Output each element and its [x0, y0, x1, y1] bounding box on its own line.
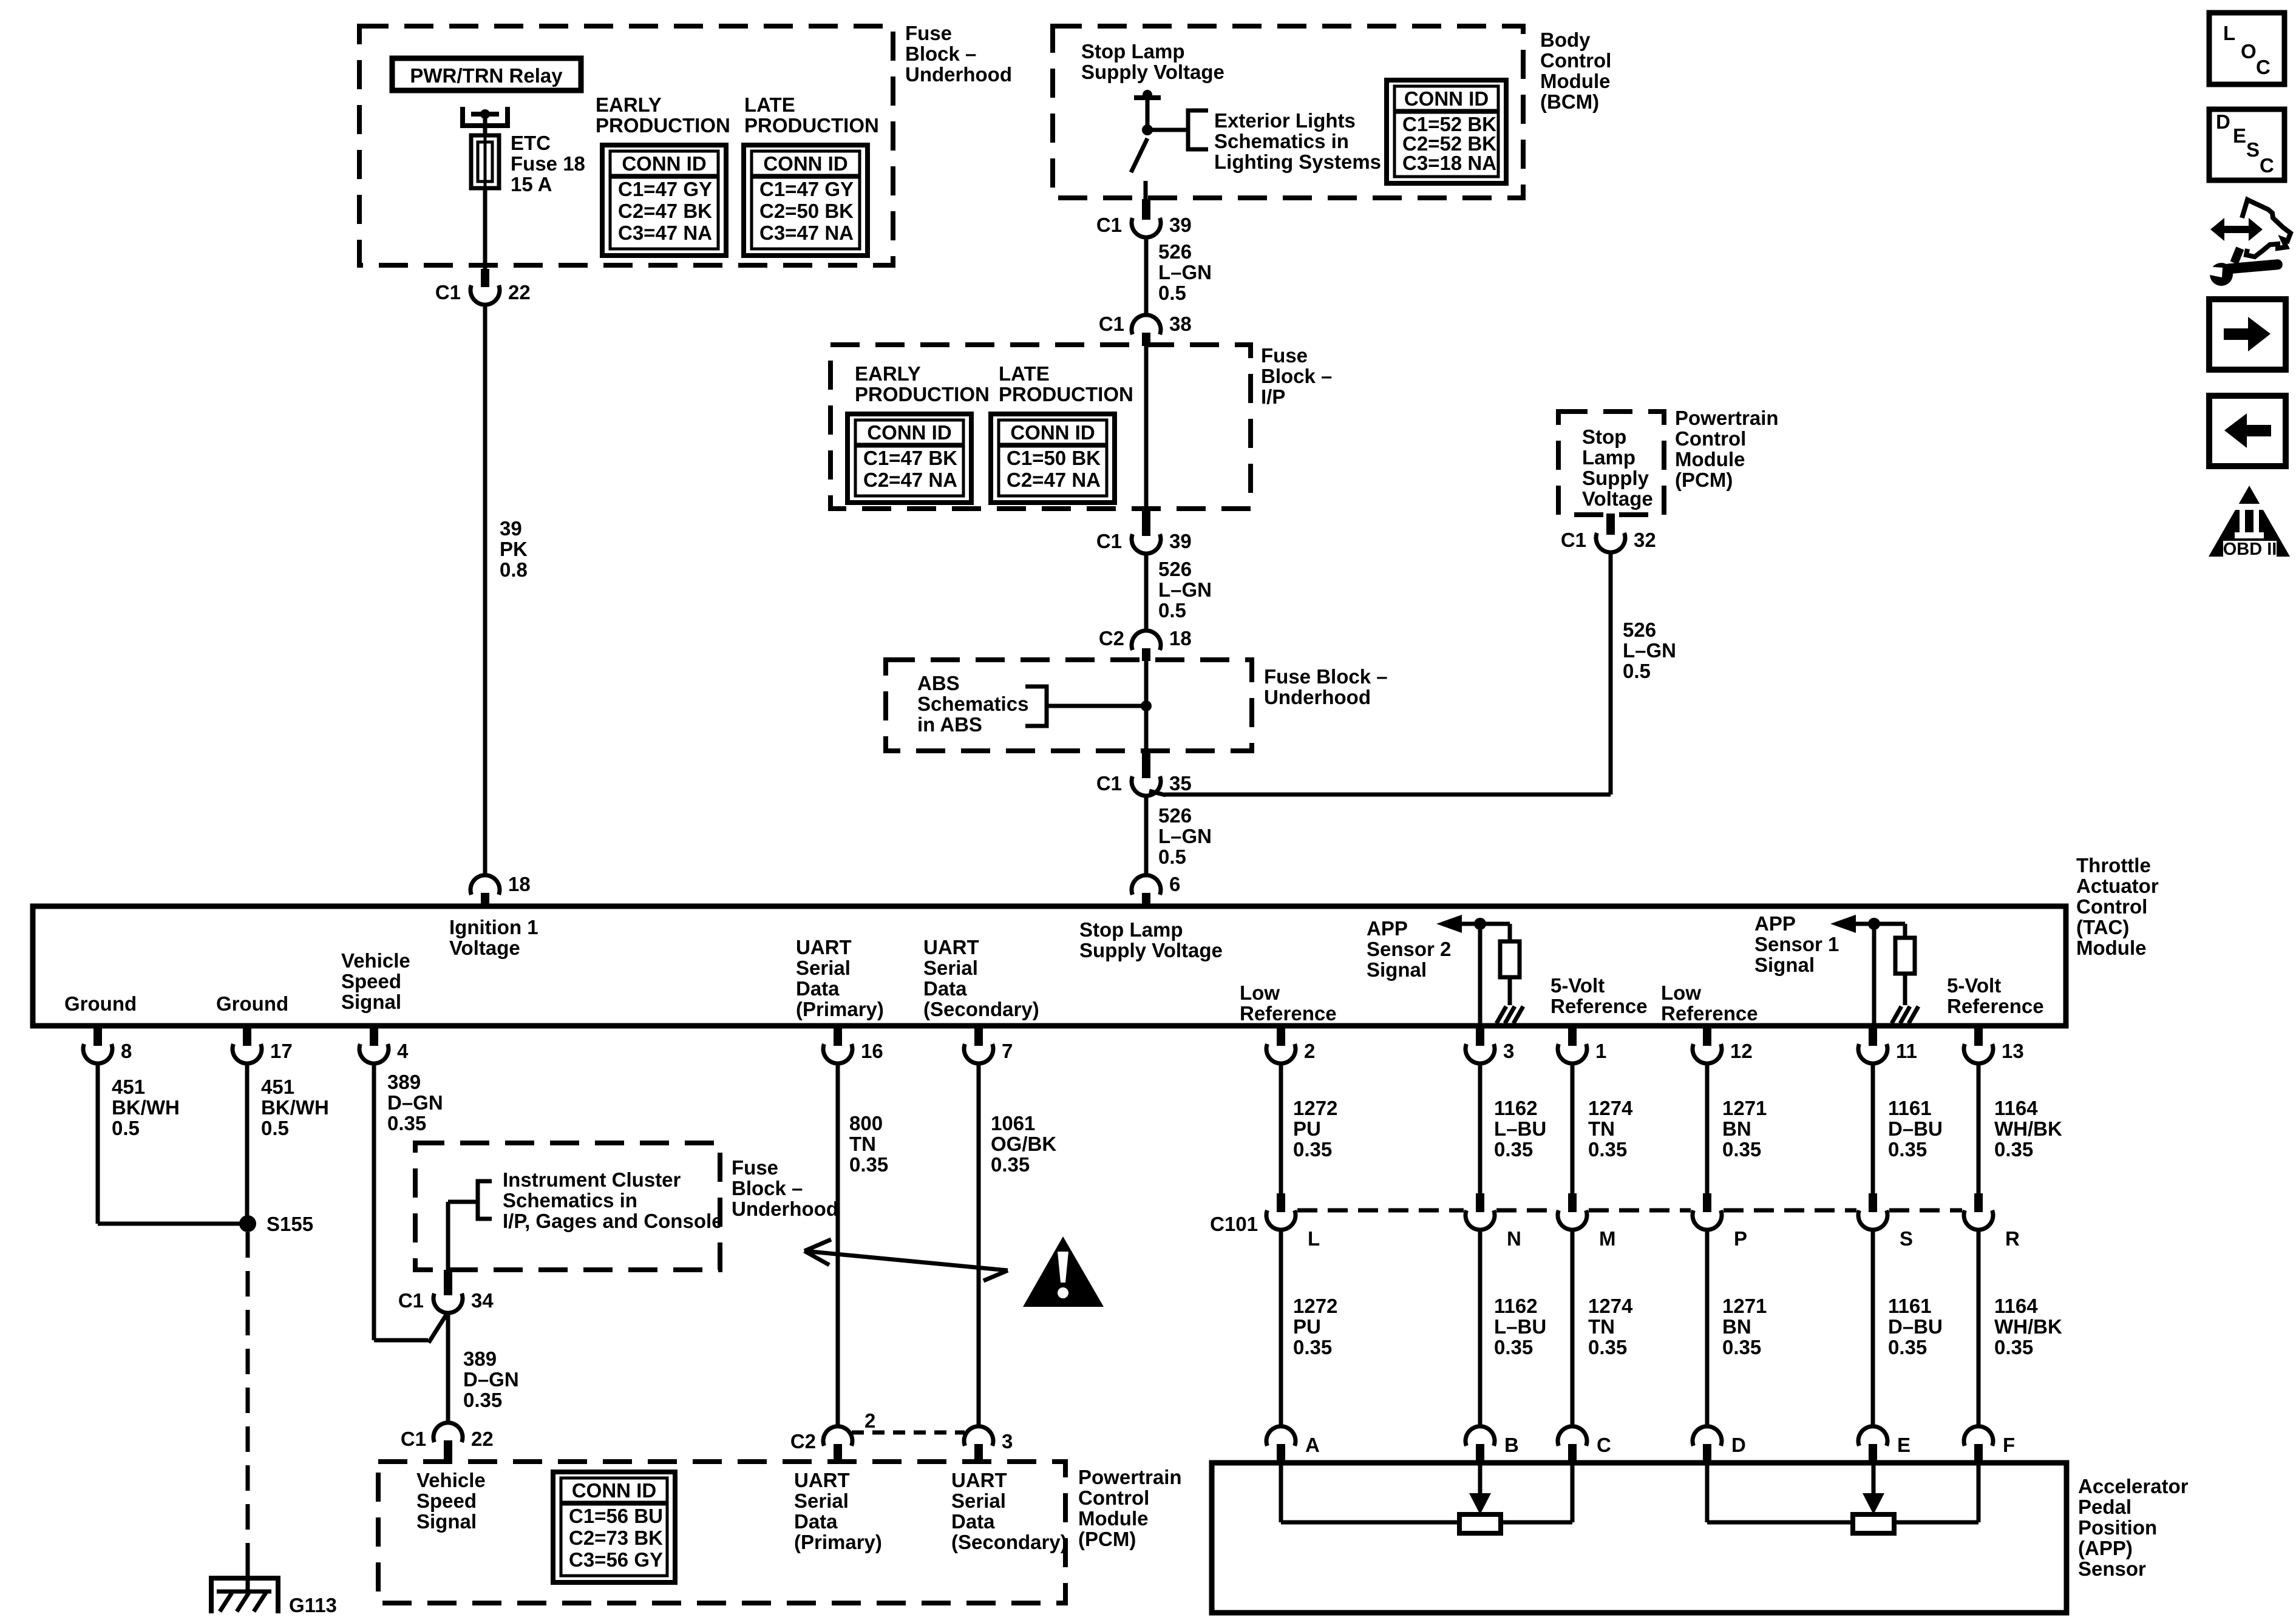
svg-text:Serial: Serial: [923, 957, 978, 979]
svg-text:WH/BK: WH/BK: [1994, 1117, 2062, 1140]
svg-text:35: 35: [1169, 772, 1192, 795]
svg-text:11: 11: [1896, 1040, 1917, 1062]
svg-text:Control: Control: [1675, 427, 1746, 450]
svg-text:Module: Module: [2076, 937, 2146, 959]
svg-text:800: 800: [849, 1112, 883, 1134]
svg-text:C1=47 GY: C1=47 GY: [618, 178, 712, 200]
svg-text:Exterior Lights: Exterior Lights: [1214, 109, 1356, 132]
svg-text:Stop: Stop: [1582, 425, 1626, 448]
svg-text:0.35: 0.35: [1994, 1138, 2033, 1161]
svg-text:Serial: Serial: [951, 1490, 1006, 1512]
svg-text:C1: C1: [398, 1289, 424, 1312]
svg-text:0.5: 0.5: [1158, 846, 1186, 868]
svg-text:0.8: 0.8: [500, 558, 528, 581]
svg-text:Low: Low: [1661, 981, 1701, 1004]
svg-text:PRODUCTION: PRODUCTION: [744, 114, 879, 137]
svg-text:1272: 1272: [1293, 1295, 1337, 1317]
svg-text:6: 6: [1169, 873, 1180, 895]
svg-text:(Secondary): (Secondary): [951, 1531, 1067, 1553]
svg-text:1162: 1162: [1494, 1097, 1538, 1119]
svg-text:PRODUCTION: PRODUCTION: [999, 383, 1133, 405]
svg-text:CONN ID: CONN ID: [1010, 421, 1095, 444]
svg-text:Vehicle: Vehicle: [341, 949, 410, 972]
svg-text:Reference: Reference: [1240, 1002, 1337, 1025]
svg-text:Reference: Reference: [1947, 995, 2044, 1017]
svg-text:TN: TN: [849, 1133, 876, 1155]
svg-text:BN: BN: [1722, 1117, 1751, 1140]
svg-text:L–GN: L–GN: [1158, 825, 1212, 847]
svg-text:0.35: 0.35: [463, 1389, 502, 1411]
svg-text:A: A: [1305, 1434, 1320, 1456]
svg-text:Block –: Block –: [1261, 365, 1332, 387]
svg-text:C2=50 BK: C2=50 BK: [759, 200, 854, 222]
svg-text:C1: C1: [1096, 772, 1122, 795]
svg-text:ETC: ETC: [511, 132, 551, 154]
svg-text:N: N: [1507, 1227, 1521, 1250]
svg-text:Module: Module: [1540, 70, 1610, 92]
svg-text:Serial: Serial: [794, 1490, 849, 1512]
svg-text:S: S: [2246, 138, 2260, 161]
svg-text:I/P: I/P: [1261, 385, 1285, 408]
svg-text:13: 13: [2002, 1040, 2024, 1062]
svg-text:1274: 1274: [1588, 1097, 1633, 1119]
svg-text:0.35: 0.35: [1293, 1138, 1332, 1161]
svg-text:0.35: 0.35: [1293, 1336, 1332, 1358]
svg-text:0.35: 0.35: [1722, 1138, 1761, 1161]
svg-text:C2=47 NA: C2=47 NA: [863, 469, 957, 491]
svg-text:Block –: Block –: [905, 42, 976, 65]
svg-text:Actuator: Actuator: [2076, 875, 2159, 897]
svg-text:0.35: 0.35: [1588, 1138, 1627, 1161]
svg-text:(Primary): (Primary): [796, 998, 884, 1020]
svg-text:Data: Data: [951, 1510, 995, 1533]
svg-text:32: 32: [1634, 529, 1656, 551]
svg-text:APP: APP: [1367, 917, 1408, 940]
svg-text:0.35: 0.35: [387, 1112, 426, 1134]
svg-text:Control: Control: [2076, 895, 2147, 918]
svg-text:(PCM): (PCM): [1078, 1528, 1136, 1550]
svg-text:Powertrain: Powertrain: [1078, 1466, 1182, 1488]
svg-text:0.35: 0.35: [1888, 1138, 1927, 1161]
svg-text:UART: UART: [796, 936, 852, 958]
svg-text:3: 3: [1002, 1430, 1013, 1453]
svg-text:I/P, Gages and Console: I/P, Gages and Console: [503, 1210, 723, 1232]
svg-text:CONN ID: CONN ID: [867, 421, 951, 444]
svg-text:LATE: LATE: [999, 362, 1050, 385]
svg-text:CONN ID: CONN ID: [1404, 87, 1489, 110]
svg-text:Block –: Block –: [732, 1177, 803, 1199]
svg-text:8: 8: [121, 1040, 132, 1062]
svg-text:L–BU: L–BU: [1494, 1117, 1546, 1140]
svg-text:D–BU: D–BU: [1888, 1117, 1943, 1140]
svg-text:Data: Data: [923, 977, 967, 1000]
svg-text:7: 7: [1002, 1040, 1013, 1062]
svg-text:1161: 1161: [1888, 1097, 1932, 1119]
svg-text:0.5: 0.5: [1158, 282, 1186, 304]
svg-text:389: 389: [387, 1071, 421, 1093]
svg-text:526: 526: [1158, 240, 1192, 263]
svg-text:Supply: Supply: [1582, 467, 1649, 489]
svg-text:1162: 1162: [1494, 1295, 1538, 1317]
svg-text:Instrument Cluster: Instrument Cluster: [503, 1168, 681, 1191]
svg-text:R: R: [2005, 1227, 2020, 1250]
svg-text:Position: Position: [2078, 1516, 2157, 1539]
svg-text:C101: C101: [1210, 1213, 1258, 1235]
svg-text:Accelerator: Accelerator: [2078, 1475, 2189, 1497]
svg-text:Lamp: Lamp: [1582, 446, 1635, 469]
svg-text:D–GN: D–GN: [463, 1368, 519, 1391]
svg-text:C2=73 BK: C2=73 BK: [569, 1527, 663, 1549]
svg-text:Ground: Ground: [216, 992, 288, 1015]
svg-text:1271: 1271: [1722, 1295, 1767, 1317]
svg-text:Data: Data: [794, 1510, 838, 1533]
svg-text:22: 22: [471, 1428, 494, 1450]
svg-text:CONN ID: CONN ID: [763, 152, 847, 175]
svg-text:Body: Body: [1540, 29, 1591, 51]
svg-text:UART: UART: [794, 1469, 850, 1491]
svg-text:L: L: [1308, 1227, 1320, 1250]
svg-text:Lighting Systems: Lighting Systems: [1214, 151, 1381, 173]
svg-text:Speed: Speed: [341, 970, 401, 992]
svg-text:Reference: Reference: [1661, 1002, 1758, 1025]
svg-text:Fuse: Fuse: [1261, 344, 1308, 367]
svg-text:Signal: Signal: [341, 991, 401, 1013]
svg-text:34: 34: [471, 1289, 494, 1312]
svg-text:C1=56 BU: C1=56 BU: [569, 1505, 663, 1527]
svg-text:LATE: LATE: [744, 93, 795, 116]
svg-text:0.35: 0.35: [1494, 1336, 1533, 1358]
svg-text:C2=47 NA: C2=47 NA: [1007, 469, 1101, 491]
svg-text:UART: UART: [923, 936, 979, 958]
svg-text:39: 39: [1169, 214, 1192, 236]
svg-text:1164: 1164: [1994, 1295, 2038, 1317]
svg-text:39: 39: [1169, 530, 1192, 552]
svg-text:C3=56 GY: C3=56 GY: [569, 1548, 663, 1571]
svg-text:Underhood: Underhood: [1264, 686, 1371, 708]
svg-text:451: 451: [112, 1076, 145, 1098]
svg-text:OBD II: OBD II: [2223, 540, 2277, 559]
svg-text:1161: 1161: [1888, 1295, 1932, 1317]
svg-text:PU: PU: [1293, 1117, 1321, 1140]
svg-text:G113: G113: [289, 1594, 337, 1616]
svg-text:(PCM): (PCM): [1675, 469, 1733, 491]
svg-text:0.35: 0.35: [1494, 1138, 1533, 1161]
svg-text:Sensor: Sensor: [2078, 1558, 2146, 1580]
svg-text:D: D: [1731, 1434, 1746, 1456]
svg-text:TN: TN: [1588, 1315, 1615, 1338]
svg-text:BK/WH: BK/WH: [112, 1096, 180, 1119]
svg-text:1: 1: [1595, 1040, 1606, 1062]
svg-text:526: 526: [1158, 804, 1192, 827]
svg-text:5-Volt: 5-Volt: [1947, 974, 2001, 997]
svg-text:Powertrain: Powertrain: [1675, 407, 1779, 429]
svg-text:0.5: 0.5: [112, 1117, 140, 1139]
svg-text:BK/WH: BK/WH: [261, 1096, 329, 1119]
svg-text:Signal: Signal: [1754, 954, 1815, 976]
svg-text:(Secondary): (Secondary): [923, 998, 1039, 1020]
svg-text:Fuse 18: Fuse 18: [511, 152, 585, 175]
svg-text:Fuse: Fuse: [905, 22, 952, 44]
svg-text:Underhood: Underhood: [732, 1198, 838, 1220]
svg-text:M: M: [1599, 1227, 1616, 1250]
svg-text:PWR/TRN Relay: PWR/TRN Relay: [410, 64, 563, 87]
svg-text:(BCM): (BCM): [1540, 90, 1599, 113]
svg-text:Module: Module: [1675, 448, 1745, 470]
svg-text:PRODUCTION: PRODUCTION: [596, 114, 730, 137]
svg-text:C: C: [2260, 154, 2274, 177]
svg-text:18: 18: [508, 873, 531, 895]
svg-text:Ground: Ground: [64, 992, 137, 1015]
svg-text:1164: 1164: [1994, 1097, 2038, 1119]
svg-text:C1=47 BK: C1=47 BK: [863, 447, 957, 469]
svg-text:451: 451: [261, 1076, 294, 1098]
svg-text:Supply Voltage: Supply Voltage: [1079, 939, 1223, 961]
svg-text:C2: C2: [1099, 627, 1124, 649]
svg-text:1272: 1272: [1293, 1097, 1337, 1119]
svg-text:Voltage: Voltage: [1582, 487, 1653, 510]
svg-text:(TAC): (TAC): [2076, 916, 2129, 938]
svg-text:S: S: [1900, 1227, 1913, 1250]
svg-text:L: L: [2223, 22, 2235, 44]
svg-text:L–GN: L–GN: [1623, 639, 1676, 662]
svg-text:L–GN: L–GN: [1158, 578, 1212, 601]
svg-text:0.35: 0.35: [1588, 1336, 1627, 1358]
svg-text:22: 22: [508, 281, 531, 303]
svg-text:Schematics: Schematics: [917, 693, 1028, 715]
svg-text:F: F: [2003, 1434, 2015, 1456]
svg-text:O: O: [2241, 40, 2257, 63]
svg-text:Control: Control: [1540, 49, 1611, 72]
svg-text:EARLY: EARLY: [855, 362, 921, 385]
svg-text:(APP): (APP): [2078, 1537, 2133, 1559]
svg-text:Vehicle: Vehicle: [416, 1469, 486, 1491]
svg-text:0.5: 0.5: [261, 1117, 289, 1139]
svg-text:Control: Control: [1078, 1486, 1149, 1509]
svg-text:D: D: [2216, 110, 2230, 133]
svg-text:C1: C1: [1096, 530, 1122, 552]
svg-text:2: 2: [1304, 1040, 1315, 1062]
svg-text:Supply Voltage: Supply Voltage: [1081, 61, 1224, 83]
svg-text:BN: BN: [1722, 1315, 1751, 1338]
svg-text:Throttle: Throttle: [2076, 854, 2151, 876]
svg-text:Stop Lamp: Stop Lamp: [1081, 40, 1185, 63]
svg-text:C1=47 GY: C1=47 GY: [759, 178, 854, 200]
svg-text:16: 16: [861, 1040, 883, 1062]
svg-text:39: 39: [500, 517, 522, 540]
svg-text:Schematics in: Schematics in: [503, 1189, 637, 1212]
svg-text:OG/BK: OG/BK: [991, 1133, 1056, 1155]
svg-text:PK: PK: [500, 538, 528, 560]
svg-text:B: B: [1504, 1434, 1519, 1456]
svg-text:Data: Data: [796, 977, 840, 1000]
svg-text:D–BU: D–BU: [1888, 1315, 1943, 1338]
svg-text:E: E: [2233, 124, 2246, 147]
svg-text:S155: S155: [267, 1213, 313, 1235]
svg-text:in ABS: in ABS: [917, 713, 982, 736]
svg-text:Underhood: Underhood: [905, 63, 1012, 86]
svg-text:1274: 1274: [1588, 1295, 1633, 1317]
svg-text:389: 389: [463, 1347, 497, 1370]
svg-text:(Primary): (Primary): [794, 1531, 882, 1553]
svg-text:Low: Low: [1240, 981, 1280, 1004]
svg-text:0.5: 0.5: [1158, 599, 1186, 622]
svg-text:Sensor 2: Sensor 2: [1367, 938, 1451, 960]
svg-text:C3=47 NA: C3=47 NA: [618, 222, 712, 244]
svg-text:Schematics in: Schematics in: [1214, 130, 1349, 152]
svg-text:Stop Lamp: Stop Lamp: [1079, 918, 1183, 941]
svg-text:CONN ID: CONN ID: [572, 1479, 656, 1502]
svg-text:EARLY: EARLY: [596, 93, 662, 116]
svg-text:Voltage: Voltage: [449, 937, 520, 959]
svg-text:Fuse Block –: Fuse Block –: [1264, 665, 1388, 688]
svg-text:1271: 1271: [1722, 1097, 1767, 1119]
svg-text:PRODUCTION: PRODUCTION: [855, 383, 990, 405]
svg-text:P: P: [1734, 1227, 1747, 1250]
svg-text:Reference: Reference: [1550, 995, 1648, 1017]
svg-text:Fuse: Fuse: [732, 1156, 778, 1179]
svg-text:5-Volt: 5-Volt: [1550, 974, 1605, 997]
svg-text:2: 2: [864, 1409, 875, 1432]
svg-text:0.35: 0.35: [1994, 1336, 2033, 1358]
svg-text:Speed: Speed: [416, 1490, 477, 1512]
svg-text:0.35: 0.35: [1888, 1336, 1927, 1358]
svg-text:1061: 1061: [991, 1112, 1035, 1134]
svg-text:18: 18: [1169, 627, 1192, 649]
svg-text:0.35: 0.35: [991, 1153, 1030, 1176]
svg-text:L–GN: L–GN: [1158, 261, 1212, 283]
svg-text:526: 526: [1158, 558, 1192, 580]
svg-text:Module: Module: [1078, 1507, 1148, 1530]
svg-text:E: E: [1897, 1434, 1911, 1456]
svg-text:CONN ID: CONN ID: [622, 152, 706, 175]
svg-text:4: 4: [397, 1040, 409, 1062]
svg-text:C1: C1: [401, 1428, 426, 1450]
svg-text:C: C: [1597, 1434, 1611, 1456]
svg-text:C2: C2: [790, 1430, 816, 1453]
svg-text:PU: PU: [1293, 1315, 1321, 1338]
svg-text:Signal: Signal: [416, 1510, 477, 1533]
svg-text:C3=47 NA: C3=47 NA: [759, 222, 854, 244]
svg-text:C3=18 NA: C3=18 NA: [1402, 152, 1496, 174]
svg-text:L–BU: L–BU: [1494, 1315, 1546, 1338]
svg-text:Serial: Serial: [796, 957, 851, 979]
svg-text:0.35: 0.35: [849, 1153, 888, 1176]
svg-text:C: C: [2256, 56, 2271, 78]
svg-text:C2=47 BK: C2=47 BK: [618, 200, 712, 222]
svg-text:15 A: 15 A: [511, 173, 552, 195]
svg-text:C1: C1: [1561, 529, 1586, 551]
svg-text:C1=50 BK: C1=50 BK: [1007, 447, 1101, 469]
svg-text:526: 526: [1623, 619, 1656, 641]
svg-text:TN: TN: [1588, 1117, 1615, 1140]
svg-text:C1: C1: [435, 281, 461, 303]
svg-text:C1: C1: [1096, 214, 1122, 236]
svg-text:Signal: Signal: [1367, 958, 1427, 981]
svg-text:38: 38: [1169, 313, 1192, 335]
svg-text:UART: UART: [951, 1469, 1007, 1491]
svg-text:D–GN: D–GN: [387, 1091, 443, 1114]
svg-text:12: 12: [1730, 1040, 1753, 1062]
svg-text:17: 17: [270, 1040, 293, 1062]
svg-text:Pedal: Pedal: [2078, 1496, 2131, 1518]
svg-text:3: 3: [1503, 1040, 1514, 1062]
svg-text:C1: C1: [1099, 313, 1124, 335]
svg-text:0.5: 0.5: [1623, 660, 1651, 682]
svg-text:0.35: 0.35: [1722, 1336, 1761, 1358]
svg-text:Ignition 1: Ignition 1: [449, 916, 538, 938]
svg-text:APP: APP: [1754, 912, 1796, 935]
svg-text:ABS: ABS: [917, 672, 960, 694]
svg-text:Sensor 1: Sensor 1: [1754, 933, 1839, 955]
svg-text:WH/BK: WH/BK: [1994, 1315, 2062, 1338]
